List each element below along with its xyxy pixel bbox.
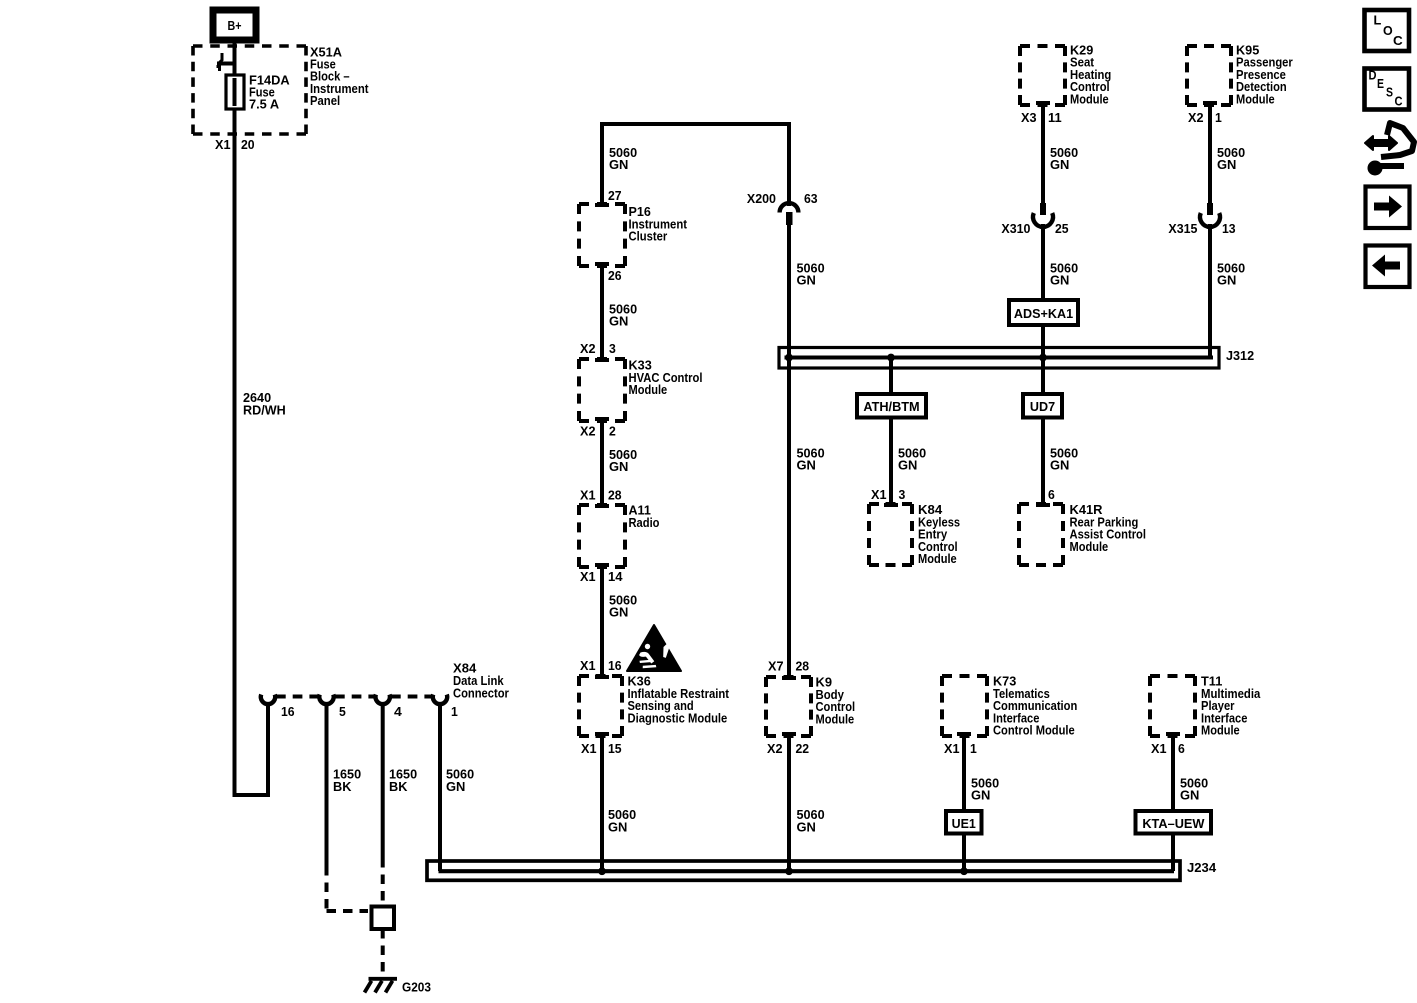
svg-text:GN: GN [797,273,816,288]
svg-text:26: 26 [608,268,622,283]
splice pack J234 housing [427,861,1180,880]
inline connector X200 pin 63 [780,203,799,212]
junction at X200 wire on J312 [785,354,793,362]
junction at K9 wire on J234 [785,867,793,875]
svg-text:GN: GN [1050,157,1069,172]
svg-text:GN: GN [1180,788,1199,803]
ground G203 [365,979,398,993]
wire UE1 to J234 [962,834,966,872]
svg-text:GN: GN [898,458,917,473]
splice pack J312 bus bar [785,356,1214,360]
svg-text:E: E [1377,76,1384,91]
svg-text:C: C [1393,33,1403,48]
svg-text:X1: X1 [581,741,597,756]
svg-text:X1: X1 [215,137,231,152]
connector X84 cavity 4 terminal cup [376,695,390,705]
wire 5060 GN X200 to J312 [787,225,791,355]
svg-text:UD7: UD7 [1030,399,1055,414]
svg-text:X3: X3 [1021,110,1037,125]
svg-text:GN: GN [1050,273,1069,288]
svg-text:X7: X7 [768,659,784,674]
svg-text:4: 4 [394,704,403,719]
svg-text:X2: X2 [1188,110,1204,125]
sidebar harness routing icon [1378,123,1414,166]
wire top run 5060 GN between P16 pin 27 and X200 [602,124,789,206]
svg-text:BK: BK [333,779,352,794]
SRS caution triangle [627,625,681,671]
splice pack J234 bus bar [439,869,1175,873]
wire KTA-UEW to J234 [1171,834,1175,872]
seat heating control module K29 dashed box [1020,46,1065,105]
svg-text:2: 2 [609,424,616,439]
RPO label UD7 [1023,394,1062,418]
svg-text:Module: Module [1070,92,1109,107]
wire 5060 GN A11 to K36 [600,567,604,676]
body control module K9 dashed box [782,676,796,680]
wire 5060 GN X315 to J312 [1208,224,1212,357]
radio A11 dashed box [595,504,609,508]
wire 5060 GN K73 to UE1 [962,736,966,811]
wire ADS+KA1 to J312 [1041,325,1045,357]
sidebar icon LOC [1365,10,1410,51]
svg-text:D: D [1369,68,1377,83]
svg-text:1: 1 [451,704,458,719]
svg-text:5: 5 [339,704,346,719]
svg-text:Module: Module [816,711,855,726]
svg-text:GN: GN [971,788,990,803]
svg-text:X315: X315 [1168,221,1197,236]
svg-text:G203: G203 [402,980,431,995]
connector X84 cavity 16 terminal cup [261,695,275,705]
splice pack [372,907,395,930]
svg-text:GN: GN [609,157,628,172]
wire from B+ to fuse F14DA [233,40,237,75]
svg-text:Module: Module [629,382,668,397]
svg-text:Module: Module [1201,723,1240,738]
svg-text:X2: X2 [580,341,596,356]
svg-text:ATH/BTM: ATH/BTM [863,399,919,414]
junction at ATH/BTM drop on J312 [887,354,895,362]
svg-text:Connector: Connector [453,686,509,701]
wire J312 to ATH/BTM [889,357,893,394]
battery feed symbol B+ [213,10,256,40]
wire 5060 GN K9 to J234 [787,736,791,871]
svg-text:3: 3 [609,341,616,356]
passenger presence module K95 dashed box [1187,46,1231,105]
fuse block terminal hook [217,53,223,71]
svg-text:28: 28 [796,659,810,674]
svg-text:Diagnostic Module: Diagnostic Module [628,710,728,725]
telematics module K73 dashed box [942,676,987,736]
junction at UE1 wire on J234 [960,867,968,875]
svg-text:GN: GN [1217,273,1236,288]
svg-text:Panel: Panel [310,93,340,108]
svg-text:13: 13 [1222,221,1236,236]
svg-text:J234: J234 [1187,860,1217,875]
splice pack J312 housing [779,348,1219,369]
svg-text:C: C [1395,94,1404,109]
sidebar icon forward arrow [1366,187,1410,229]
inflatable restraint module K36 dashed box [595,675,609,679]
svg-text:27: 27 [608,188,622,203]
svg-text:X1: X1 [580,658,596,673]
svg-text:11: 11 [1048,110,1062,125]
svg-text:1: 1 [970,741,977,756]
svg-text:X1: X1 [944,741,960,756]
wire splice to ground G203 [381,929,385,977]
wire corner to data link connector pin 16 [233,704,269,795]
svg-text:7.5 A: 7.5 A [249,97,280,112]
svg-text:GN: GN [797,458,816,473]
svg-text:ADS+KA1: ADS+KA1 [1014,306,1073,321]
svg-text:J312: J312 [1226,348,1254,363]
inline connector X310 pin 25 [1040,203,1046,215]
fuse block X51A dashed box [193,46,306,134]
svg-text:KTA–UEW: KTA–UEW [1142,816,1205,831]
svg-text:GN: GN [609,459,628,474]
HVAC control module K33 dashed box [595,358,609,362]
svg-text:28: 28 [608,488,622,503]
wire J312 to UD7 [1041,357,1045,394]
wire 5060 GN J312 to K9 [787,355,791,677]
svg-text:S: S [1386,85,1393,100]
svg-text:X310: X310 [1001,221,1030,236]
wire 2640 RD/WH from fuse block down [233,109,237,795]
wire 5060 GN P16 to K33 [600,266,604,359]
wire from X84 pin 4 (1650 BK) [381,704,385,858]
svg-text:Module: Module [1070,539,1109,554]
wire 5060 GN X310 to ADS+KA1 [1041,224,1045,300]
svg-text:3: 3 [899,487,906,502]
svg-text:BK: BK [389,779,408,794]
wire 5060 GN K29 to X310 [1041,105,1045,203]
svg-text:GN: GN [609,314,628,329]
RPO label ADS+KA1 [1009,300,1078,325]
svg-text:Module: Module [1236,92,1275,107]
svg-text:15: 15 [608,741,622,756]
RPO label UE1 [946,811,982,834]
svg-text:X200: X200 [747,191,776,206]
connector X84 cavity 1 terminal cup [433,695,447,705]
sidebar icon back arrow [1366,246,1410,288]
wire 5060 GN K36 to J234 [600,736,604,871]
svg-text:GN: GN [609,605,628,620]
svg-text:X1: X1 [580,569,596,584]
svg-text:Module: Module [918,551,957,566]
data link connector X84 dashed bus line [276,695,318,699]
svg-text:25: 25 [1055,221,1069,236]
connector X84 cavity 5 terminal cup [319,695,333,705]
svg-text:X2: X2 [580,424,596,439]
wire from X84 pin 1 (5060 GN) to junction J234 [438,704,442,871]
svg-text:22: 22 [796,741,810,756]
junction at UD7 drop on J312 [1039,354,1047,362]
wire 5060 GN K33 to A11 [600,421,604,505]
svg-text:GN: GN [1050,458,1069,473]
wire 5060 GN UD7 to K41R [1041,418,1045,505]
sidebar icon DESC [1365,69,1410,110]
svg-text:16: 16 [281,704,295,719]
svg-text:Control Module: Control Module [993,723,1075,738]
svg-text:X1: X1 [1151,741,1167,756]
svg-text:L: L [1374,13,1382,28]
RPO label KTA-UEW [1136,811,1212,834]
svg-text:6: 6 [1178,741,1185,756]
svg-text:14: 14 [608,569,623,584]
wire from X84 pin 5 (1650 BK) [325,704,329,866]
svg-text:GN: GN [1217,157,1236,172]
svg-text:Radio: Radio [629,515,660,530]
svg-text:B+: B+ [228,18,242,33]
instrument cluster P16 dashed box [595,203,609,207]
inline connector X315 pin 13 [1207,203,1213,215]
multimedia player module T11 dashed box [1150,676,1195,736]
svg-text:Cluster: Cluster [629,229,668,244]
keyless entry module K84 dashed box [884,503,898,507]
svg-text:20: 20 [241,137,255,152]
rear parking assist module K41R dashed box [1036,503,1050,507]
svg-text:O: O [1383,23,1393,38]
svg-text:GN: GN [797,819,816,834]
svg-text:63: 63 [804,191,818,206]
wire 5060 GN K95 to X315 [1208,105,1212,203]
svg-text:1: 1 [1215,110,1222,125]
svg-text:X1: X1 [580,488,596,503]
svg-text:X1: X1 [871,487,887,502]
svg-text:GN: GN [608,819,627,834]
svg-text:16: 16 [608,658,622,673]
svg-text:6: 6 [1048,487,1055,502]
fuse F14DA [226,75,244,109]
wire 5060 GN T11 to KTA-UEW [1171,736,1175,811]
svg-text:RD/WH: RD/WH [243,402,286,417]
junction at K36 wire on J234 [598,867,606,875]
svg-text:UE1: UE1 [952,816,976,831]
RPO label ATH/BTM [857,394,926,418]
svg-text:GN: GN [446,779,465,794]
svg-text:X2: X2 [767,741,783,756]
wire 5060 GN ATH/BTM to K84 [889,418,893,505]
